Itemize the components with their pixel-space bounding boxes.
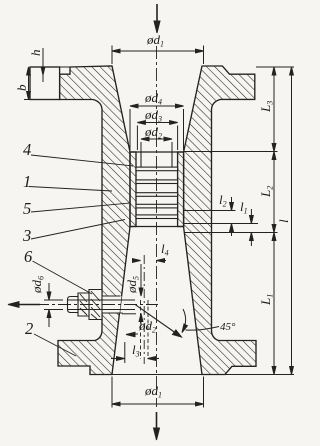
fitting tip cap bbox=[68, 297, 79, 313]
throat bore edge right bbox=[171, 153, 173, 168]
svg-text:5: 5 bbox=[23, 199, 31, 218]
chamfer 45 deg line bbox=[136, 305, 181, 336]
tap hole break in body wall bbox=[103, 296, 122, 313]
body left sectioned wall with flanges bbox=[58, 66, 130, 375]
svg-text:b: b bbox=[14, 84, 29, 91]
leader 5 bbox=[31, 203, 130, 212]
leader 2 bbox=[34, 334, 76, 356]
dimension L2 bbox=[273, 152, 275, 233]
svg-text:3: 3 bbox=[22, 226, 31, 245]
fitting collar bbox=[78, 293, 89, 316]
extension bottom face right bbox=[112, 374, 294, 376]
flow arrow bottom bbox=[156, 412, 158, 430]
dimension L3 bbox=[273, 67, 275, 152]
centerlines bbox=[14, 46, 158, 407]
extension top face right bbox=[256, 66, 294, 68]
dimension od3 bbox=[137, 122, 177, 124]
svg-text:6: 6 bbox=[24, 247, 33, 266]
insert top edge bbox=[130, 151, 184, 153]
extension ring line B bbox=[184, 223, 258, 225]
body right sectioned wall with flanges bbox=[184, 66, 256, 375]
dimension od2 bbox=[141, 138, 172, 140]
svg-text:l: l bbox=[276, 219, 291, 223]
leader od2 bottom bbox=[128, 333, 138, 335]
ring plate 4 bbox=[136, 204, 178, 208]
dimension l1 small bbox=[250, 209, 252, 224]
dimension od5 bbox=[140, 264, 142, 296]
pressure tap fitting bbox=[68, 290, 103, 320]
ring plate 1 bbox=[136, 167, 178, 171]
leader 4 bbox=[31, 155, 133, 166]
leader 1 bbox=[29, 187, 112, 192]
leader 45 deg bbox=[186, 327, 220, 331]
insert holder right wall bbox=[178, 152, 184, 227]
ring plate 2 bbox=[136, 180, 178, 184]
tap bore upper wall bbox=[68, 299, 135, 301]
insert bottom edge bbox=[130, 226, 184, 228]
ring plate 3 bbox=[136, 193, 178, 197]
insert holder left wall bbox=[130, 152, 136, 227]
dimension l overall bbox=[291, 67, 293, 375]
chamfer angle arc bbox=[183, 309, 186, 331]
svg-text:1: 1 bbox=[23, 172, 31, 191]
tap passage hidden wall right bbox=[147, 300, 149, 359]
tap passage centerline bbox=[143, 255, 145, 364]
main vertical axis bbox=[156, 46, 158, 407]
extension ring line A bbox=[184, 210, 236, 212]
fitting serration marks bbox=[80, 294, 87, 302]
svg-text:45°: 45° bbox=[220, 321, 236, 333]
chamfer horizontal reference bbox=[122, 313, 136, 315]
dimension od1 top bbox=[112, 50, 204, 52]
svg-text:4: 4 bbox=[23, 140, 31, 159]
tap passage hidden wall left bbox=[140, 300, 142, 359]
leader 6 bbox=[33, 261, 93, 294]
svg-text:h: h bbox=[28, 50, 43, 57]
throat bore edge left bbox=[140, 153, 142, 168]
flow arrow left out bbox=[15, 304, 40, 306]
flow arrow top bbox=[156, 4, 158, 23]
top flange loose ring (unhatched) bbox=[30, 67, 60, 100]
extension insert top to right bbox=[184, 151, 278, 153]
dimension l2 small bbox=[231, 197, 233, 211]
tap hole in body wall lower bbox=[102, 312, 123, 314]
dimension l4 bbox=[132, 260, 141, 262]
svg-text:2: 2 bbox=[25, 319, 33, 338]
tap bore lower wall bbox=[68, 309, 135, 311]
leader 3 bbox=[31, 220, 125, 240]
ring plate 5 bbox=[136, 215, 178, 219]
callout leaders bbox=[29, 155, 133, 356]
dimension b bbox=[28, 67, 30, 100]
dimension od1 bottom bbox=[112, 403, 204, 405]
tap hole in body wall upper bbox=[102, 295, 121, 297]
dimension l3 bbox=[111, 358, 125, 360]
dimension od4 bbox=[130, 105, 184, 107]
extension ring line C bbox=[184, 232, 278, 234]
dimension h bbox=[31, 66, 70, 68]
tap horizontal axis bbox=[14, 304, 158, 306]
dimension od6 bbox=[44, 299, 63, 301]
fitting hex body bbox=[89, 290, 102, 320]
dimension L1 bbox=[273, 233, 275, 375]
